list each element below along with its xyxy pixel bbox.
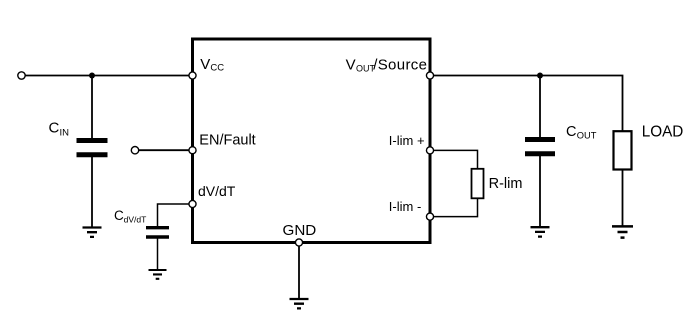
resistor R-lim [472,169,484,199]
label I-lim+ [389,133,425,148]
svg-text:IN: IN [60,128,70,139]
junction node Cin [89,73,95,79]
svg-text:C: C [566,124,576,140]
label CIN value [49,119,70,138]
pin Vout/Source [426,72,433,79]
ground (GND pin) [290,299,309,308]
wire LOAD lower to ground [622,170,624,227]
ground (Cout) [531,227,550,236]
wire EN terminal to EN/Fault pin [138,149,193,151]
svg-text:LOAD: LOAD [642,124,684,141]
svg-text:C: C [114,208,124,223]
svg-text:I-lim -: I-lim - [389,199,422,214]
pin EN/Fault [189,147,196,154]
ground (CdVdT) [149,270,167,279]
label COUT value [566,124,597,140]
svg-text:C: C [49,119,60,136]
pin Vcc [189,72,196,79]
label LOAD [642,124,684,141]
svg-text:/Source: /Source [373,56,427,73]
svg-text:EN/Fault: EN/Fault [199,132,255,148]
label R-lim value [489,176,523,192]
wire input to Vcc pin [25,75,193,77]
wire Cin lower to ground [91,155,93,228]
label Vout/Source [346,56,428,73]
terminal EN [131,147,138,154]
label Vcc [200,56,224,74]
label I-lim- [389,199,422,214]
wire I-lim+ to R-lim [430,150,478,169]
capacitor CIN [77,141,108,155]
pin dV/dT [189,200,196,207]
label GND [283,222,317,239]
svg-text:GND: GND [283,222,317,239]
wire Cin upper branch [91,76,93,141]
svg-text:dV/dT: dV/dT [124,214,147,224]
terminal VIN [18,72,25,79]
wire CdVdT lower to ground [157,237,159,270]
capacitor CdVdT [146,228,169,237]
ground (Cin) [83,228,102,237]
wire Cout upper branch [539,76,541,140]
label EN/Fault [199,132,255,148]
label dV/dT [198,183,236,199]
svg-text:dV/dT: dV/dT [198,183,236,199]
svg-text:I-lim +: I-lim + [389,133,425,148]
svg-text:V: V [200,56,210,73]
wire R-lim to I-lim- [430,198,478,217]
label CdVdT value [114,208,146,224]
svg-text:OUT: OUT [577,130,597,140]
pin GND [295,239,302,246]
svg-text:CC: CC [210,62,224,73]
pin I-lim- [426,213,433,220]
wire Cout lower to ground [539,154,541,227]
wire dV/dT pin to CdVdT [158,204,193,227]
junction node Cout [537,73,543,79]
wire GND pin to ground [298,243,300,300]
svg-text:V: V [346,56,356,73]
ground (LOAD) [612,226,633,237]
resistor LOAD [614,131,632,169]
pin I-lim+ [426,147,433,154]
wire Vout to LOAD corner [430,76,623,132]
capacitor COUT [525,140,555,154]
IC U1 body [193,39,431,243]
svg-text:R-lim: R-lim [489,176,523,192]
